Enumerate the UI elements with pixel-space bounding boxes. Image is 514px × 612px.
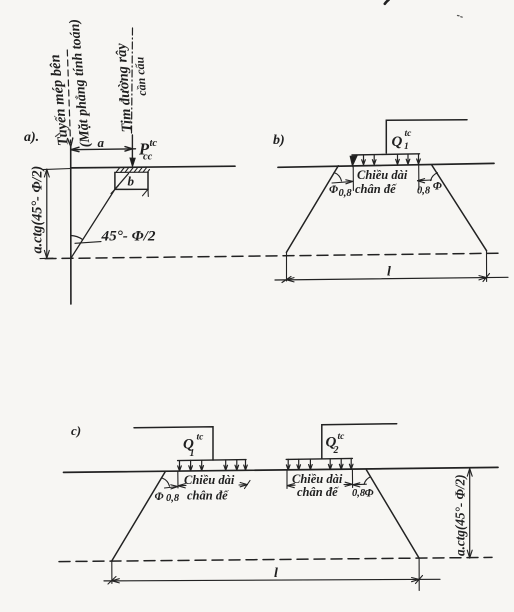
svg-text:tc: tc	[150, 138, 158, 149]
dimension a line	[71, 148, 136, 151]
left dimension extension tick top	[43, 169, 71, 170]
label Tim duong ray (rotated)	[113, 42, 135, 133]
label Q_2^tc figure c	[326, 432, 346, 456]
svg-text:a.ctg(45°- Φ/2): a.ctg(45°- Φ/2)	[30, 166, 46, 254]
node line: Tuyen mep ben dashed axis	[67, 50, 70, 143]
load arrows Q2 figure c	[286, 459, 353, 470]
label 0,8 right figure b	[417, 186, 431, 197]
svg-text:0,8: 0,8	[417, 186, 431, 197]
label Q_1^tc figure c	[183, 433, 204, 460]
dim 0,8 left figure b	[332, 181, 353, 183]
phi arc right figure c	[364, 477, 371, 485]
svg-text:1: 1	[190, 448, 195, 459]
svg-text:Chiều dài: Chiều dài	[292, 472, 343, 486]
svg-text:0,8: 0,8	[339, 188, 353, 199]
svg-text:Chiều dài: Chiều dài	[357, 168, 408, 182]
figure label b)	[273, 133, 285, 148]
label 0,8 left figure b	[339, 188, 353, 199]
load bracket Q2 figure c	[322, 424, 397, 459]
dimension l arrows figure c	[108, 576, 423, 585]
svg-text:l: l	[274, 566, 278, 581]
label l figure c	[274, 566, 278, 581]
left dimension arrows	[44, 169, 49, 258]
label l figure b	[387, 265, 391, 280]
extension ticks bottom figure b	[287, 251, 487, 282]
embankment left slope figure b	[286, 166, 338, 253]
svg-text:0,8: 0,8	[166, 493, 180, 504]
spread line (45-phi/2) from block corner	[71, 174, 129, 259]
shared dashed depth line figures a and b	[45, 253, 501, 258]
label phi left figure b	[329, 184, 338, 196]
svg-text:Chiều dài: Chiều dài	[184, 473, 235, 487]
label Chieu dai Q2 figure c	[292, 472, 343, 486]
figure label a)	[24, 130, 39, 145]
right strip tick figure b	[418, 165, 420, 190]
svg-text:b: b	[128, 174, 135, 189]
dim 0,8 right figure b	[418, 179, 432, 182]
angle arc 45-phi/2	[71, 236, 83, 240]
ground line figure b	[278, 163, 494, 167]
dimension l line figure c	[104, 579, 440, 581]
svg-text:chân đế: chân đế	[187, 489, 229, 503]
force P_cc^tc arrow	[131, 135, 133, 165]
load arrows figure b	[362, 154, 421, 165]
svg-text:tc: tc	[197, 433, 205, 443]
phi arc right figure b	[431, 173, 438, 181]
load arrows Q1 figure c	[178, 460, 248, 471]
svg-text:cc: cc	[143, 152, 153, 163]
ground line figure c	[64, 467, 499, 472]
left strip tick Q1 figure c	[177, 471, 179, 488]
svg-text:2: 2	[333, 445, 339, 456]
left strip tick Q2 figure c	[286, 471, 288, 489]
svg-text:tc: tc	[338, 432, 346, 442]
label phi left figure c	[155, 491, 164, 503]
label (Mat phang tinh toan) (rotated)	[67, 18, 93, 148]
ground line figure a	[71, 166, 235, 168]
dimension l line figure b	[275, 277, 508, 280]
label chan de Q1 figure c	[187, 489, 229, 503]
label Q_1^tc figure b	[392, 129, 413, 152]
foundation block b	[115, 172, 148, 189]
rail pad hatched strip	[115, 168, 150, 173]
stray mark top edge	[385, 0, 389, 4]
label phi right figure b	[433, 181, 442, 193]
label 0,8 right figure c	[352, 488, 366, 499]
chieu dai dim Q1 figure c	[178, 485, 248, 486]
extension ticks bottom figure c	[112, 558, 419, 590]
label chan de figure b	[355, 182, 397, 196]
label 0,8 left figure c	[166, 493, 180, 504]
label a.ctg(45-phi/2) rotated	[30, 166, 46, 254]
load bracket Q1 figure c	[134, 427, 213, 460]
label 45 - phi/2	[101, 228, 156, 245]
label Tuyen mep ben (rotated)	[47, 54, 72, 147]
label can cau (rotated)	[132, 56, 149, 96]
label Chieu dai figure b	[357, 168, 408, 182]
figure label c)	[71, 423, 81, 438]
embankment left slope figure c	[112, 471, 166, 561]
dashed depth line figure c	[59, 557, 492, 561]
svg-text:Φ: Φ	[433, 181, 442, 193]
dim 0,8 left figure c	[165, 487, 179, 489]
node line: Tim duong ray crane rail centerline (dash-dot)	[132, 28, 133, 135]
chieu dai dim Q2 figure c	[287, 484, 352, 485]
label a.ctg rotated figure c	[453, 474, 468, 556]
dimension a arrows	[71, 147, 132, 152]
left strip tick figure b	[352, 166, 354, 191]
svg-text:Q: Q	[392, 134, 403, 150]
embankment right slope figure b	[432, 165, 487, 251]
svg-text:b): b)	[273, 133, 285, 148]
svg-text:chân đế: chân đế	[297, 485, 339, 499]
embankment right slope figure c	[366, 470, 419, 558]
svg-text:c): c)	[71, 423, 81, 438]
arrowhead at bottom of axis	[68, 138, 73, 147]
distributed load line Q1 figure c	[178, 460, 246, 461]
stray dots	[458, 16, 463, 18]
svg-text:Φ: Φ	[329, 184, 338, 196]
svg-text:Φ: Φ	[365, 488, 374, 500]
corner tick left	[111, 186, 119, 194]
svg-text:1: 1	[404, 142, 409, 152]
svg-text:l: l	[387, 265, 391, 280]
label chan de Q2 figure c	[297, 485, 339, 499]
right strip tick Q2 figure c	[351, 470, 353, 488]
label b	[128, 174, 135, 189]
load bracket figure b	[386, 120, 467, 153]
svg-text:chân đế: chân đế	[355, 182, 397, 196]
dimension l arrows figure b	[282, 274, 490, 283]
stray tick left of text block	[56, 133, 61, 137]
svg-text:a).: a).	[24, 130, 39, 145]
right vertical dimension a.ctg figure c	[469, 468, 471, 558]
bottom tick at dashed line	[40, 257, 53, 259]
angle leader line	[75, 242, 101, 244]
heavy left arrow blob	[351, 156, 357, 165]
svg-text:a: a	[98, 135, 105, 150]
label phi right figure c	[365, 488, 374, 500]
svg-text:tc: tc	[405, 129, 413, 139]
svg-text:45°- Φ/2: 45°- Φ/2	[101, 228, 156, 245]
svg-text:a.ctg(45°- Φ/2): a.ctg(45°- Φ/2)	[453, 474, 468, 556]
svg-text:cần cẩu: cần cẩu	[132, 56, 149, 96]
dim 0,8 right figure c	[353, 483, 367, 486]
label Chieu dai Q1 figure c	[184, 473, 235, 487]
phi arc left figure b	[334, 173, 342, 182]
label a	[98, 135, 105, 150]
left dimension line a.ctg	[46, 169, 48, 258]
phi arc left figure c	[162, 478, 170, 486]
vertical reference line figure a	[70, 146, 72, 304]
corner tick right	[143, 189, 149, 196]
distributed load line Q2 figure c	[286, 458, 352, 459]
label P_cc^tc	[138, 138, 157, 163]
distributed load line figure b	[352, 154, 420, 155]
svg-text:Φ: Φ	[155, 491, 164, 503]
